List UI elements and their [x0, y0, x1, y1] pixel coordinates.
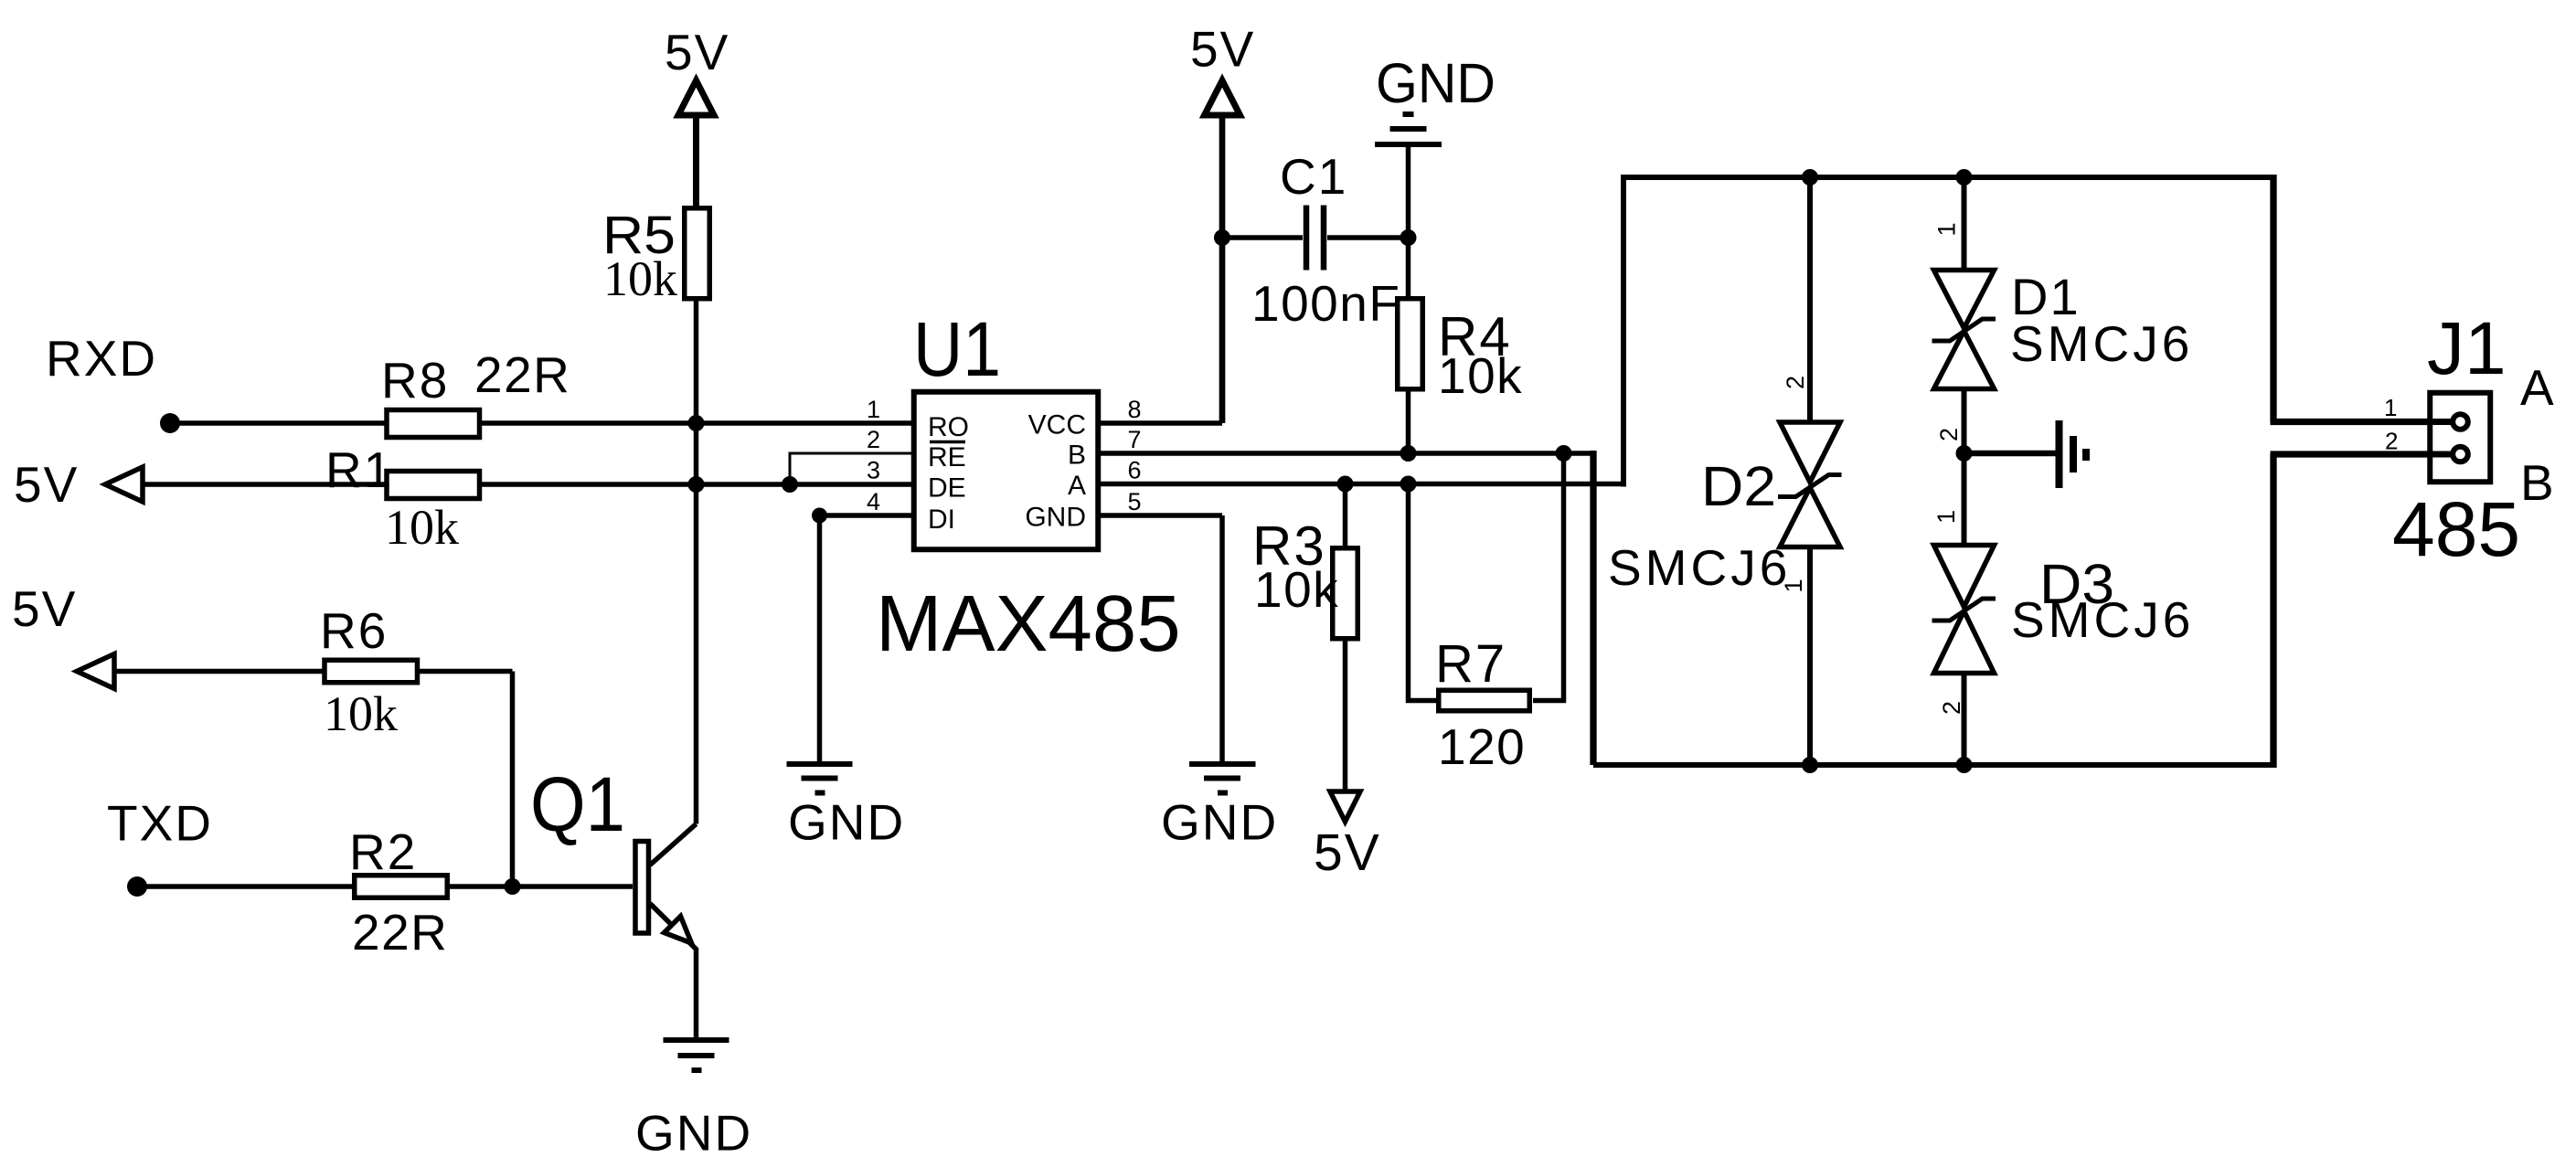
svg-text:2: 2 — [1938, 701, 1965, 715]
junction R1/collector — [688, 476, 705, 493]
svg-text:7: 7 — [1128, 426, 1142, 453]
ground symbol under Q1 emitter — [664, 1040, 729, 1070]
power arrow 5V down (R3 bottom) — [1330, 791, 1360, 822]
junction R2/R6/base — [505, 878, 521, 895]
svg-text:A: A — [1068, 471, 1086, 501]
svg-text:5V: 5V — [14, 456, 79, 513]
svg-text:10k: 10k — [1438, 347, 1523, 404]
svg-text:GND: GND — [1025, 503, 1086, 533]
diode D1 TVS bottom triangle — [1934, 331, 1995, 389]
connector J1 pin wires inside box — [2427, 422, 2453, 455]
junction bottom rail D2 — [1802, 757, 1818, 773]
diode D3 zener bar — [1932, 599, 1996, 621]
svg-text:R6: R6 — [320, 602, 388, 659]
diode D2 TVS top triangle — [1780, 422, 1840, 483]
svg-text:120: 120 — [1438, 718, 1526, 775]
junction RE/DE — [782, 476, 798, 493]
ground symbol under DI — [787, 764, 853, 793]
svg-text:1: 1 — [2384, 394, 2397, 421]
wire D3 branch — [1962, 674, 1967, 766]
svg-text:SMCJ6: SMCJ6 — [2011, 591, 2194, 648]
svg-text:5V: 5V — [1190, 21, 1255, 78]
svg-text:2: 2 — [867, 426, 880, 453]
diode D3 TVS top triangle — [1934, 546, 1995, 608]
wire A net pin6 — [1101, 482, 1623, 487]
junction top rail D2 — [1802, 169, 1818, 186]
terminal dot TXD — [127, 876, 147, 897]
wire RE jog pin2 to DE — [790, 453, 911, 484]
junction R3/A — [1337, 476, 1354, 493]
svg-text:1: 1 — [1780, 579, 1807, 592]
resistor R3 body — [1333, 548, 1358, 639]
wire R5 vertical / Q1 collector riser — [693, 115, 699, 206]
junction bottom rail D3 — [1956, 757, 1973, 773]
svg-text:B: B — [2520, 454, 2556, 511]
svg-text:Q1: Q1 — [530, 761, 625, 847]
terminal dot RXD — [160, 413, 180, 433]
svg-text:R2: R2 — [349, 823, 417, 880]
svg-text:10k: 10k — [324, 686, 398, 741]
svg-text:B: B — [1068, 441, 1086, 471]
resistor R8 body — [387, 410, 480, 438]
svg-text:R7: R7 — [1435, 634, 1506, 694]
ground symbol under pin5 — [1189, 764, 1256, 793]
connector J1 box — [2430, 393, 2490, 483]
svg-text:485: 485 — [2392, 486, 2520, 572]
ground symbol rotated (earth at D1/D3 mid) — [2060, 420, 2087, 488]
wire Q1 emitter diagonal and GND stem — [650, 904, 697, 1038]
svg-text:VCC: VCC — [1028, 410, 1086, 441]
svg-text:10k: 10k — [1254, 561, 1339, 618]
svg-text:1: 1 — [867, 396, 880, 423]
transistor Q1 emitter arrowhead — [665, 917, 692, 944]
svg-text:GND: GND — [1161, 794, 1278, 851]
wire Q1 collector diagonal — [650, 824, 697, 865]
svg-text:GND: GND — [635, 1105, 752, 1162]
svg-text:2: 2 — [1935, 428, 1963, 441]
wire RXD net — [170, 420, 911, 426]
wire top rail to J1 pin1 — [1621, 175, 2273, 180]
wire DI pin4 — [820, 515, 912, 761]
wire GND stem top — [1406, 147, 1411, 238]
junction R4/B — [1400, 445, 1417, 462]
svg-text:DI: DI — [928, 504, 955, 535]
svg-text:1: 1 — [1932, 510, 1960, 524]
junction D1/D3 earth — [1956, 445, 1973, 462]
power arrow 5V (VCC riser) — [1205, 80, 1240, 115]
svg-text:J1: J1 — [2427, 307, 2507, 390]
wire DE/R1 net — [143, 482, 911, 487]
svg-text:22R: 22R — [352, 904, 448, 961]
power arrow 5V left (R6 line) — [77, 654, 114, 689]
svg-text:2: 2 — [1782, 376, 1809, 389]
svg-text:4: 4 — [867, 488, 880, 515]
junction R7/A — [1400, 476, 1417, 493]
IC U1 box — [914, 392, 1099, 550]
diode D3 TVS bottom triangle — [1934, 611, 1995, 674]
wire pin5 GND — [1101, 515, 1222, 761]
svg-text:GND: GND — [1376, 52, 1496, 114]
svg-text:3: 3 — [867, 457, 880, 484]
svg-text:R8: R8 — [381, 352, 449, 409]
junction C1/R4/GND — [1400, 229, 1417, 246]
resistor R2 body — [355, 876, 448, 898]
resistor R4 body — [1398, 299, 1423, 389]
svg-text:6: 6 — [1128, 457, 1142, 484]
svg-text:RO: RO — [928, 412, 969, 442]
svg-text:RE: RE — [928, 442, 966, 473]
svg-text:5V: 5V — [12, 580, 77, 637]
svg-text:MAX485: MAX485 — [876, 579, 1181, 668]
resistor R6 body — [325, 660, 418, 683]
power arrow 5V (R5 top) — [678, 80, 714, 115]
junction top rail D1 — [1956, 169, 1973, 186]
ground symbol top (inverted, at R4/C1) — [1375, 114, 1442, 144]
wire C1 row — [1222, 235, 1409, 240]
svg-text:2: 2 — [2385, 428, 2398, 455]
junction R8/R5 — [688, 415, 705, 431]
transistor Q1 base bar — [635, 842, 649, 934]
svg-text:SMCJ6: SMCJ6 — [1608, 539, 1791, 596]
svg-text:100nF: 100nF — [1251, 275, 1400, 332]
diode D1 TVS top triangle — [1934, 271, 1995, 329]
diode D2 zener bar — [1778, 475, 1842, 497]
junction VCC/C1 — [1214, 229, 1230, 246]
capacitor C1 plates — [1306, 206, 1324, 271]
junction DI — [812, 508, 827, 524]
wire earth stub at D1/D3 midpoint — [1964, 451, 2057, 457]
resistor R7 body — [1439, 690, 1530, 711]
svg-text:SMCJ6: SMCJ6 — [2010, 315, 2193, 372]
svg-text:U1: U1 — [913, 306, 1001, 392]
connector J1 pin 2 circle — [2453, 447, 2468, 462]
svg-text:10k: 10k — [603, 251, 677, 306]
svg-text:8: 8 — [1128, 396, 1142, 423]
overline of RE pin label — [930, 441, 965, 444]
connector J1 pin 1 circle — [2453, 414, 2468, 430]
junction R7/B — [1556, 445, 1572, 462]
wire bottom rail to J1 pin2 — [1593, 762, 2273, 768]
diode D1 zener bar — [1932, 319, 1996, 341]
svg-text:D2: D2 — [1701, 455, 1776, 517]
wire D1 branch — [1962, 177, 1967, 546]
power arrow 5V left (R1 line) — [105, 467, 143, 502]
svg-text:22R: 22R — [474, 346, 570, 403]
wire R6 row and drop — [113, 672, 513, 887]
wire TXD to Q1 base — [137, 884, 633, 889]
wire R3 vertical — [1343, 484, 1348, 793]
svg-text:RXD: RXD — [46, 330, 157, 387]
svg-text:1: 1 — [1933, 222, 1961, 236]
wire R7 left leg — [1409, 484, 1438, 701]
resistor R5 body — [685, 208, 710, 299]
svg-text:DE: DE — [928, 473, 966, 504]
svg-text:5V: 5V — [1314, 823, 1381, 882]
svg-text:R1: R1 — [325, 441, 393, 498]
svg-text:A: A — [2520, 359, 2556, 416]
wire D2 branch — [1807, 177, 1813, 765]
svg-text:5: 5 — [1128, 488, 1142, 515]
resistor R1 body — [387, 472, 480, 499]
svg-text:TXD: TXD — [107, 795, 213, 852]
wire B net pin7 — [1101, 451, 1593, 456]
svg-text:C1: C1 — [1280, 148, 1347, 205]
diode D2 TVS bottom triangle — [1780, 488, 1840, 547]
svg-text:GND: GND — [788, 794, 905, 851]
wire R7 right leg — [1533, 453, 1564, 701]
wire VCC pin8 to 5V riser — [1101, 420, 1222, 426]
svg-text:10k: 10k — [385, 500, 459, 555]
wire R4 vertical — [1406, 238, 1411, 453]
svg-text:5V: 5V — [665, 24, 729, 80]
